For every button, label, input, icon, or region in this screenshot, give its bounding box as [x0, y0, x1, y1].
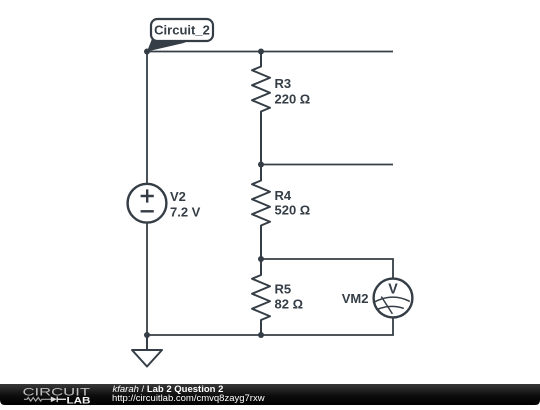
logo diode	[51, 397, 57, 403]
svg-text:R5: R5	[275, 282, 292, 297]
node flag tail	[147, 38, 186, 52]
junction top of R3	[258, 49, 264, 55]
svg-text:520 Ω: 520 Ω	[275, 203, 311, 218]
junction ground rail left	[144, 332, 150, 338]
svg-text:Circuit_2: Circuit_2	[154, 23, 210, 38]
svg-text:220 Ω: 220 Ω	[275, 92, 311, 107]
svg-text:V2: V2	[170, 189, 186, 204]
resistor R3	[252, 52, 270, 165]
wire left rail upper (node A to V2 top)	[146, 52, 148, 184]
svg-text:VM2: VM2	[342, 291, 369, 306]
wire left rail lower (V2 bottom to ground rail)	[146, 223, 148, 335]
svg-text:7.2 V: 7.2 V	[170, 205, 201, 220]
svg-text:LAB: LAB	[67, 395, 91, 405]
svg-text:V: V	[388, 281, 398, 298]
wire top rail	[147, 51, 393, 53]
logo resistor zigzag	[24, 398, 53, 402]
junction R3/R4	[258, 162, 264, 168]
voltmeter VM2	[374, 279, 413, 318]
junction R4/R5	[258, 256, 264, 262]
svg-text:R3: R3	[275, 76, 292, 91]
resistor R4	[252, 165, 270, 260]
ground	[132, 335, 162, 367]
wire bottom rail (ground rail to voltmeter bottom)	[147, 317, 393, 335]
svg-text:http://circuitlab.com/cmvq8zay: http://circuitlab.com/cmvq8zayg7rxw	[112, 393, 265, 404]
node flag Circuit_2 box	[151, 19, 213, 41]
junction bottom of R5	[258, 332, 264, 338]
wire R4/R5 junction to voltmeter top	[261, 259, 393, 279]
svg-text:R4: R4	[275, 188, 292, 203]
junction node A top-left	[144, 49, 150, 55]
resistor R5	[252, 259, 270, 335]
svg-text:82 Ω: 82 Ω	[275, 297, 304, 312]
wire middle rail (R3/R4 junction to right)	[261, 164, 393, 166]
voltage source V2	[128, 184, 167, 223]
